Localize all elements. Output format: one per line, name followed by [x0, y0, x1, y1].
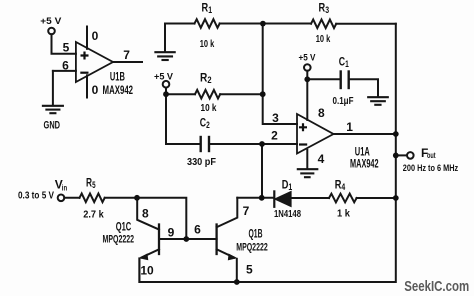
svg-text:+5 V: +5 V	[154, 71, 174, 82]
junction (R4/bus)	[393, 195, 399, 201]
svg-text:6: 6	[62, 59, 69, 73]
svg-text:in: in	[62, 184, 67, 193]
capacitor C2	[201, 137, 209, 151]
ground	[43, 106, 63, 113]
svg-text:8: 8	[318, 106, 325, 120]
svg-text:10 k: 10 k	[200, 39, 215, 50]
wire (Fout tap)	[396, 154, 407, 156]
op-amp U1A	[297, 114, 334, 154]
junction (C2/pin2/bus)	[259, 141, 265, 147]
wire (right bus)	[139, 24, 395, 282]
wire	[53, 70, 76, 72]
junction (R5/Q1C collector)	[134, 195, 140, 201]
ground (R1 left)	[155, 52, 174, 60]
svg-text:200 Hz to 6 MHz: 200 Hz to 6 MHz	[403, 163, 459, 174]
resistor R3	[311, 20, 336, 29]
resistor R4	[329, 194, 357, 203]
wire	[52, 34, 76, 54]
node Vin terminal	[58, 195, 65, 202]
ground (C1)	[368, 97, 388, 105]
wire	[307, 78, 340, 80]
transistor Q1C	[137, 198, 159, 282]
wire	[64, 197, 79, 199]
wire (to base node)	[137, 198, 186, 239]
pin line bottom (U1B)	[86, 75, 88, 97]
svg-text:10 k: 10 k	[316, 34, 331, 45]
wire	[52, 71, 54, 105]
svg-text:MAX942: MAX942	[103, 83, 134, 97]
wire (Q1B collector to D1)	[237, 197, 274, 199]
wire (bus C2 node down to D1 node)	[261, 144, 263, 198]
wire (base rail)	[159, 238, 217, 240]
wire (pin 2 row)	[209, 143, 297, 145]
wire	[220, 23, 311, 25]
resistor R1	[195, 19, 220, 28]
svg-text:1 k: 1 k	[337, 209, 350, 220]
junction (+5V/R2)	[163, 91, 169, 97]
svg-text:1N4148: 1N4148	[274, 209, 301, 220]
op-amp U1A - symbol	[299, 143, 307, 145]
resistor R5	[80, 194, 105, 203]
svg-text:Q1C: Q1C	[116, 220, 132, 234]
wire	[166, 93, 195, 95]
svg-text:7: 7	[243, 204, 250, 218]
wire	[113, 61, 142, 63]
junction (+5V/C1/pin8)	[304, 76, 310, 82]
svg-text:4: 4	[318, 152, 325, 166]
junction (U1A out/bus)	[393, 131, 399, 137]
svg-text:1: 1	[346, 120, 353, 134]
svg-text:3: 3	[272, 111, 279, 125]
junction (base node)	[183, 236, 189, 242]
svg-text:5: 5	[246, 263, 253, 277]
op-amp U1B	[76, 42, 113, 82]
pin line top (U1B)	[86, 27, 88, 49]
svg-text:GND: GND	[44, 119, 61, 131]
svg-text:0: 0	[92, 83, 99, 97]
svg-text:0.3 to 5 V: 0.3 to 5 V	[18, 191, 54, 202]
svg-text:0: 0	[92, 29, 99, 43]
svg-text:out: out	[427, 151, 436, 160]
svg-text:MPQ2222: MPQ2222	[236, 242, 268, 254]
svg-text:9: 9	[168, 226, 175, 240]
op-amp U1B + symbol	[80, 52, 307, 145]
wire	[165, 24, 195, 53]
node +5V terminal (R2)	[163, 81, 170, 88]
junction (R2/bus)	[260, 91, 266, 97]
wire (pin 8 supply)	[306, 71, 308, 120]
svg-text:0.1μF: 0.1μF	[333, 96, 354, 107]
node +5V terminal (U1B)	[48, 28, 55, 35]
resistor R2	[195, 90, 220, 99]
svg-text:MAX942: MAX942	[350, 156, 379, 170]
wire (U1A output)	[334, 133, 396, 135]
ground (U1A pin 4)	[298, 169, 318, 177]
op-amp U1B - symbol	[80, 72, 88, 74]
junction (R1/R3/bus)	[260, 21, 266, 27]
diode D1	[274, 191, 291, 206]
wire	[349, 79, 378, 97]
wire (bus R1/R3 node down to pin 3)	[263, 24, 297, 125]
junction (Q1B emitter/bottom wire)	[234, 279, 240, 285]
transistor Q1B	[217, 198, 238, 282]
junction (bus/D1/Q1B collector)	[259, 195, 265, 201]
svg-text:MPQ2222: MPQ2222	[103, 234, 135, 246]
svg-text:SeekIC.com: SeekIC.com	[404, 278, 469, 295]
svg-text:2: 2	[271, 129, 278, 143]
svg-text:7: 7	[123, 48, 130, 62]
wire	[291, 197, 329, 199]
svg-text:330 pF: 330 pF	[187, 157, 216, 168]
svg-text:+5 V: +5 V	[40, 16, 62, 27]
svg-text:U1B: U1B	[110, 70, 125, 84]
wire	[105, 197, 137, 199]
svg-text:2.7 k: 2.7 k	[83, 210, 104, 221]
wire	[220, 93, 263, 95]
svg-text:10: 10	[140, 264, 154, 278]
wire	[357, 197, 396, 199]
junction (Fout tap)	[393, 153, 399, 159]
node +5V terminal (U1A)	[304, 64, 311, 71]
wire	[166, 143, 200, 145]
svg-text:5: 5	[63, 41, 70, 55]
svg-text:8: 8	[142, 207, 149, 221]
node Fout terminal	[407, 152, 414, 159]
capacitor C1	[341, 72, 349, 89]
wire	[336, 23, 396, 25]
svg-text:10 k: 10 k	[201, 103, 217, 114]
svg-text:+5 V: +5 V	[299, 53, 317, 64]
svg-text:Q1B: Q1B	[249, 227, 263, 241]
svg-text:6: 6	[194, 223, 201, 237]
wire (pin 4)	[306, 150, 308, 169]
op-amp U1A + symbol	[299, 123, 307, 131]
wire	[165, 88, 167, 145]
